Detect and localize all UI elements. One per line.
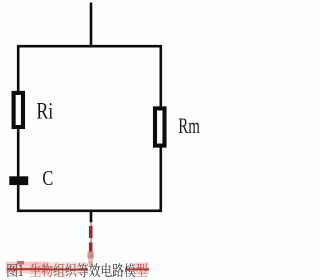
caption highlight halo (6, 261, 150, 275)
caption char 等 (77, 263, 88, 277)
caption char 路 (113, 263, 124, 277)
resistor Ri (14, 93, 23, 127)
caption char 效 (89, 263, 100, 277)
resistor Rm (155, 108, 165, 145)
capacitor C (9, 176, 28, 185)
caption char 1 (19, 265, 23, 276)
caption strikethrough marks (7, 268, 149, 270)
caption char 电 (102, 263, 112, 277)
wire bottom lead (90, 211, 93, 223)
annotation red dashed lead (88, 222, 94, 267)
caption char 物 (42, 263, 53, 277)
caption char 生 (30, 263, 41, 276)
wire rectangle loop (18, 46, 161, 211)
caption char 型 (136, 263, 147, 276)
caption char 图 (7, 264, 17, 278)
svg-text:Rm: Rm (178, 114, 200, 139)
svg-text:Ri: Ri (36, 99, 53, 124)
wire top lead (90, 3, 93, 47)
caption char 组 (54, 263, 65, 276)
svg-text:C: C (42, 167, 53, 190)
caption char 模 (124, 263, 135, 277)
caption char 织 (66, 263, 77, 277)
